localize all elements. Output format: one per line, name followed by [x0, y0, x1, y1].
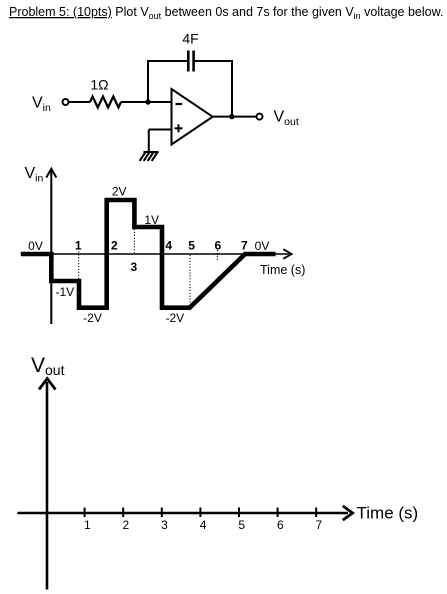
svg-text:6: 6: [214, 239, 221, 253]
wire: feedback top left horizontal: [147, 60, 188, 62]
svg-text:7: 7: [316, 518, 323, 532]
svg-text:3: 3: [130, 260, 137, 274]
svg-text:4F: 4F: [182, 31, 198, 47]
svg-text:-2V: -2V: [165, 311, 184, 325]
Vout graph: tick t=7: [315, 508, 317, 518]
svg-text:-2V: -2V: [83, 311, 102, 325]
Vin graph: dotted line at t=3: [133, 229, 135, 253]
input terminal (open circle): [63, 99, 69, 105]
Vout graph: tick t=1: [84, 508, 86, 518]
svg-text:Time (s): Time (s): [260, 263, 305, 277]
ground symbol: [140, 152, 159, 161]
op-amp non-inverting (+) pin mark: [175, 127, 183, 129]
svg-text:2: 2: [111, 239, 118, 253]
Vout graph: y-axis: [46, 382, 49, 590]
svg-text:0V: 0V: [28, 239, 43, 253]
svg-text:5: 5: [238, 518, 245, 532]
svg-text:2: 2: [123, 518, 130, 532]
Vin graph: dotted tick at t=6: [216, 250, 218, 262]
Vin graph: dotted line at t=1: [78, 252, 80, 281]
svg-text:Vin: Vin: [25, 165, 44, 185]
svg-text:1: 1: [84, 518, 91, 532]
Vout graph: x-axis: [17, 512, 348, 515]
output terminal (open circle): [257, 114, 263, 120]
wire: input terminal to resistor: [69, 101, 91, 103]
svg-text:1Ω: 1Ω: [90, 77, 108, 93]
svg-text:6: 6: [277, 518, 284, 532]
Vout graph: tick t=5: [238, 508, 240, 518]
svg-text:Vout: Vout: [31, 354, 65, 378]
svg-text:-1V: -1V: [55, 285, 74, 299]
Vin graph: x-axis: [21, 253, 289, 255]
wire: feedback top right horizontal: [195, 60, 233, 62]
svg-text:1: 1: [75, 239, 82, 253]
op-amp inverting (-) pin mark: [176, 103, 183, 105]
svg-text:Time (s): Time (s): [357, 504, 419, 523]
wire: non-inverting input vertical to ground: [148, 130, 150, 153]
junction node A (inverting input): [145, 99, 150, 104]
Vout graph: tick t=2: [122, 508, 124, 518]
resistor R (1 ohm): [90, 97, 121, 108]
wire: op-amp output to output terminal: [213, 116, 257, 118]
Vout graph: tick t=4: [199, 508, 201, 518]
wire: feedback left vertical: [147, 60, 149, 102]
svg-text:Vout: Vout: [274, 109, 299, 129]
Vout graph: tick t=3: [161, 508, 163, 518]
svg-text:7: 7: [241, 239, 248, 253]
svg-text:3: 3: [161, 518, 168, 532]
svg-text:Vin: Vin: [32, 95, 51, 115]
junction node B (output): [229, 114, 234, 119]
svg-text:4: 4: [165, 239, 172, 253]
capacitor C1 (4F) plates: [187, 51, 190, 72]
svg-text:4: 4: [200, 518, 207, 532]
wire: feedback right vertical to output: [231, 60, 233, 117]
Vin waveform: [21, 200, 276, 308]
wire: non-inverting input horizontal: [149, 129, 172, 131]
svg-text:1V: 1V: [144, 213, 159, 227]
Vin graph: dotted line at t=5: [189, 255, 191, 303]
Vin graph: y-axis: [50, 170, 52, 324]
svg-text:0V: 0V: [255, 239, 270, 253]
svg-text:2V: 2V: [112, 185, 127, 199]
svg-text:5: 5: [188, 239, 195, 253]
op-amp U1 triangle: [172, 89, 213, 145]
Vout graph: tick t=6: [277, 508, 279, 518]
wire: resistor to inverting-input node: [121, 101, 172, 103]
svg-text:Problem 5: (10pts) Plot Vout b: Problem 5: (10pts) Plot Vout between 0s …: [9, 5, 443, 21]
